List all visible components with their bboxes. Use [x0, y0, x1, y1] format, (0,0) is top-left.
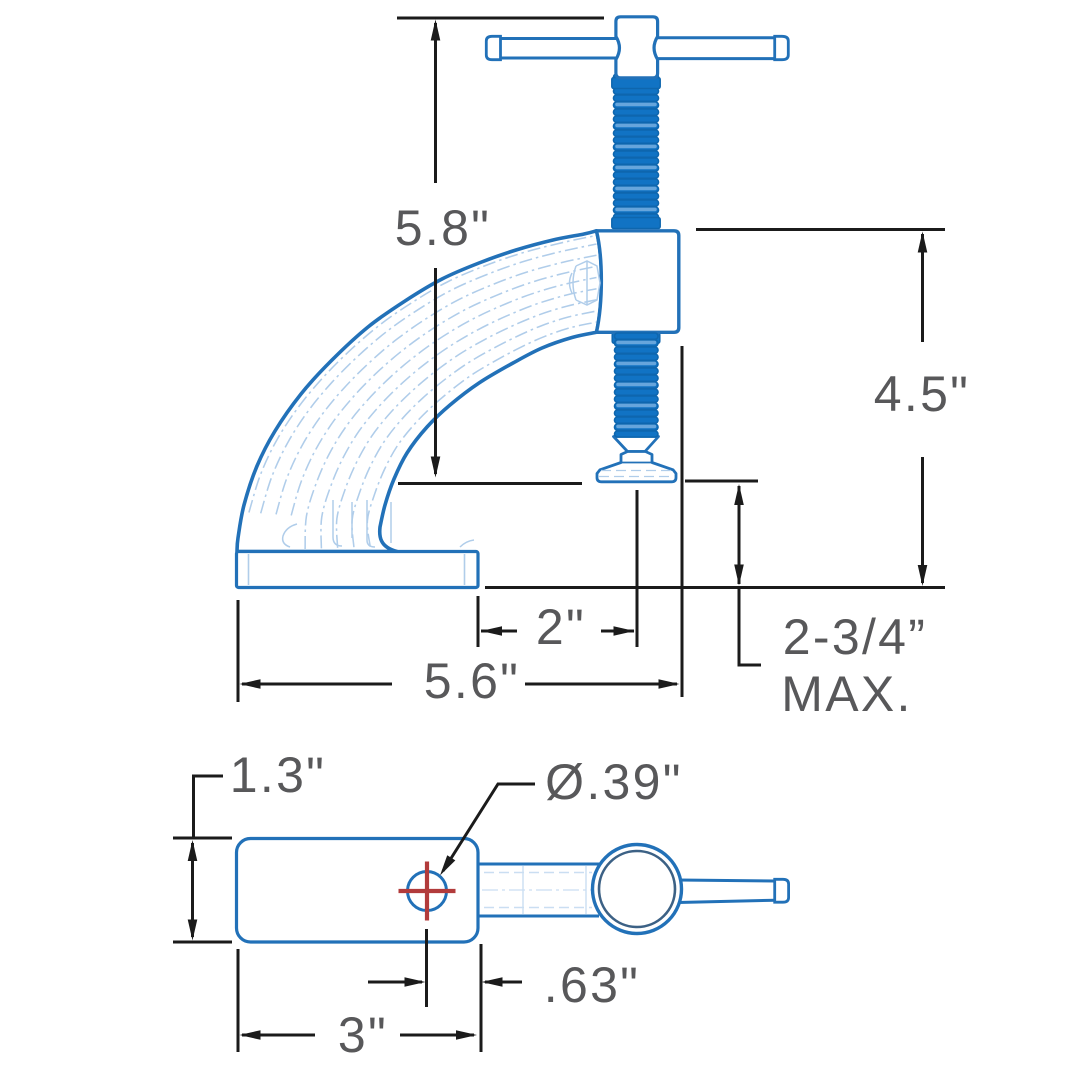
arm leg hidden slots — [333, 500, 352, 546]
dim 5.8 top reference line — [397, 17, 604, 20]
dim .63 arrows — [368, 981, 422, 984]
svg-text:1.3": 1.3" — [230, 747, 326, 803]
clamp arm (gooseneck body) — [237, 231, 601, 552]
clamp screw upper threads — [618, 74, 654, 229]
svg-text:5.6": 5.6" — [424, 653, 520, 709]
T-handle left end cap — [486, 36, 500, 59]
clamp head block — [597, 231, 679, 332]
extension line base right — [681, 346, 684, 697]
svg-text:Ø.39": Ø.39" — [545, 754, 683, 810]
screw collar above head block — [612, 218, 660, 229]
svg-text:4.5": 4.5" — [874, 366, 970, 422]
extension line base right edge (2 inch) — [477, 596, 480, 647]
svg-text:MAX.: MAX. — [781, 666, 912, 722]
T-handle right bar — [657, 38, 775, 59]
arm hidden lines — [249, 235, 597, 512]
top view: screw hub outer circle — [593, 845, 682, 934]
dim 1.3 double arrow — [191, 843, 194, 937]
swivel pad cone — [614, 437, 659, 452]
svg-text:2-3/4”: 2-3/4” — [783, 609, 927, 665]
dim 4.5 top reference line — [696, 228, 945, 231]
dim 4.5 vertical line — [921, 234, 924, 342]
leader line for hole diameter — [443, 784, 535, 871]
hidden screw boss detail — [570, 261, 601, 305]
top view: handle bar — [670, 880, 775, 903]
top view: handle end cap — [775, 879, 789, 902]
screw collar below head block — [612, 333, 660, 344]
baseline reference line — [485, 586, 945, 589]
extension line plate left — [237, 949, 240, 1052]
dim 3 line — [242, 1034, 315, 1037]
dim 5.8 bottom reference line — [398, 482, 582, 485]
dim 5.6 line — [242, 683, 392, 686]
dim 2-3/4 vertical line with tail — [738, 486, 741, 584]
dim 1.3 bottom tick — [173, 941, 232, 944]
T-handle left bar — [489, 39, 617, 59]
top view: screw hub inner circle — [599, 851, 675, 927]
top view: arm bar — [478, 864, 598, 916]
clamp screw lower threads — [619, 333, 654, 437]
extension line plate right — [480, 944, 483, 1052]
T-handle hub block — [616, 17, 658, 78]
clamp base (front view) — [237, 552, 479, 588]
svg-text:3": 3" — [338, 1007, 388, 1063]
extension line base left — [237, 600, 240, 702]
svg-text:2": 2" — [536, 599, 586, 655]
hole crosshair — [399, 862, 456, 921]
top view: hole circle — [408, 872, 447, 911]
screw collar below hub — [612, 78, 660, 89]
T-handle right end cap — [775, 36, 789, 59]
hole centerline — [425, 929, 428, 1007]
dim 2 arrows — [481, 630, 517, 633]
svg-text:.63": .63" — [544, 957, 640, 1013]
top view: base plate — [237, 839, 479, 943]
dim 5.8 vertical line — [434, 23, 437, 183]
dim 1.3 top tick — [173, 837, 232, 840]
dim 2-3/4 top reference line — [685, 480, 758, 483]
swivel pad foot — [597, 452, 676, 482]
extension line screw centerline — [636, 490, 639, 647]
svg-text:5.8": 5.8" — [395, 200, 491, 256]
dim 1.3 label bracket — [194, 776, 224, 838]
top view: arm hidden lines — [484, 873, 592, 908]
